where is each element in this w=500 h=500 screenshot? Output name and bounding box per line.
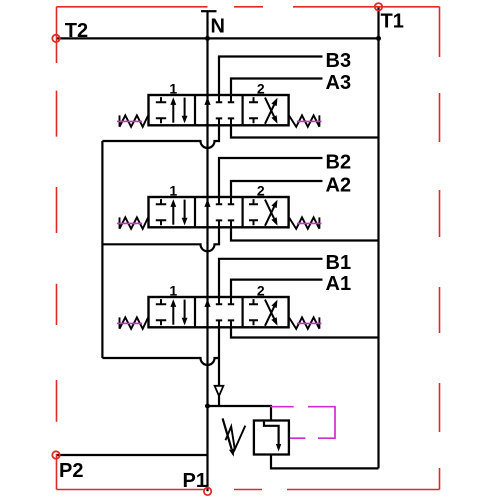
wire valve 1 return to T1 rail — [231, 125, 379, 138]
pilot line dashed (relief valve remote sense) — [270, 406, 293, 408]
svg-text:P2: P2 — [59, 460, 83, 482]
wire P2 to riser — [56, 454, 208, 456]
directional control valve 2 (middle spool) — [117, 182, 322, 228]
relief valve adjustment arrow — [223, 418, 232, 449]
enclosure dashed border left — [56, 7, 58, 490]
svg-text:B1: B1 — [326, 252, 352, 274]
enclosure dashed border bottom — [57, 489, 440, 491]
wire port B1 to valve 3 — [219, 259, 323, 298]
relief valve spring — [226, 426, 246, 450]
junction pump node — [205, 404, 210, 409]
wire valve 2 supply with crossover hop — [102, 227, 219, 251]
relief valve RV1 body — [254, 421, 289, 455]
wire port A1 to valve 3 — [231, 280, 323, 298]
wire pump node to relief valve inlet — [208, 406, 272, 421]
directional control valve 3 (bottom spool) — [117, 282, 322, 328]
flow direction marker (open arrow) — [215, 386, 224, 396]
wire port B3 to valve 1 — [219, 57, 323, 97]
wire T1 rail — [377, 7, 379, 469]
directional control valve 1 (top spool) — [117, 80, 322, 126]
enclosure dashed border top — [57, 6, 440, 8]
wire relief valve drain to T1 rail — [271, 455, 379, 469]
wire neutral riser N to P1 — [206, 11, 208, 491]
node N plug cap — [201, 10, 217, 12]
svg-text:A3: A3 — [326, 72, 352, 94]
wire valve 2 return to T1 rail — [231, 227, 379, 240]
port P1 connection ring — [204, 488, 211, 495]
svg-text:T1: T1 — [381, 11, 404, 33]
wire port A2 to valve 2 — [231, 181, 323, 198]
svg-text:A2: A2 — [326, 174, 352, 196]
svg-text:N: N — [211, 16, 225, 38]
port T2 connection ring — [52, 35, 59, 42]
svg-text:T2: T2 — [65, 20, 88, 42]
port P2 connection ring — [52, 451, 59, 458]
wire port B2 to valve 2 — [219, 158, 323, 198]
wire rail bottom with crossover hop — [102, 358, 219, 365]
wire valve 3 return to T1 rail — [231, 327, 379, 338]
junction N on tank manifold — [205, 36, 210, 41]
wire marker to pump node — [218, 396, 220, 406]
svg-text:B2: B2 — [326, 151, 352, 173]
wire valve 3 feed down — [218, 327, 220, 386]
wire tank manifold T2 to T1 — [56, 37, 379, 39]
junction T1 rail on tank manifold — [376, 36, 381, 41]
port T1 connection ring — [375, 3, 382, 10]
enclosure dashed border right — [439, 7, 441, 490]
relief valve internal flow path with arrow — [264, 422, 279, 445]
wire port A3 to valve 1 — [231, 79, 323, 97]
wire parallel supply rail left — [101, 141, 103, 358]
svg-text:A1: A1 — [326, 273, 352, 295]
svg-text:P1: P1 — [183, 470, 207, 492]
svg-text:B3: B3 — [326, 50, 352, 72]
wire valve 1 supply with crossover hop — [102, 125, 219, 148]
